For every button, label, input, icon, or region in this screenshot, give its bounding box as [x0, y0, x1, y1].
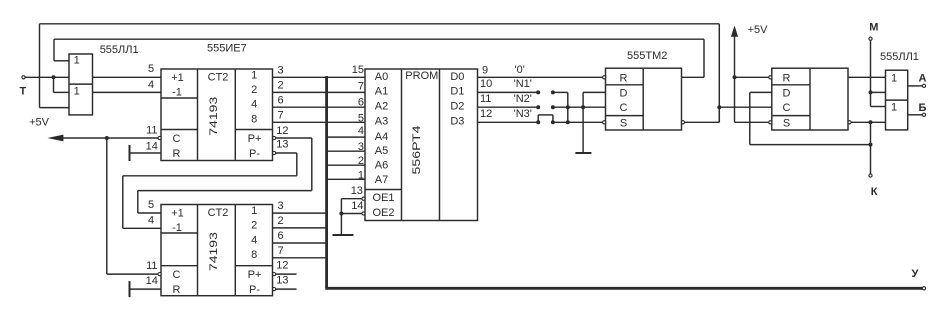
svg-text:1: 1: [891, 73, 897, 85]
power +5V feed arrow left: [47, 135, 63, 142]
node T input terminal: [22, 76, 25, 79]
svg-text:P+: P+: [248, 269, 262, 281]
svg-text:D: D: [783, 87, 791, 99]
svg-text:2: 2: [251, 84, 257, 96]
pin U5 Qbar inversion circle: [848, 121, 851, 124]
wire U4 D pin to ground: [583, 91, 605, 93]
svg-text:2: 2: [278, 215, 284, 227]
svg-text:13: 13: [276, 138, 288, 150]
wire D3 to jumper, net N3: [478, 121, 539, 123]
svg-text:7: 7: [278, 110, 284, 122]
wire U1.2 output to counter -1 pin 4: [93, 91, 162, 93]
svg-text:11: 11: [146, 260, 157, 272]
svg-text:11: 11: [146, 124, 157, 136]
wire borrow P- U2a to -1 U2b: [276, 152, 297, 154]
wire D2 to jumper, net N2: [478, 106, 539, 108]
svg-text:12: 12: [276, 125, 288, 137]
pin OE2 circle and wire: [362, 212, 365, 215]
svg-text:P-: P-: [249, 284, 260, 296]
prom U3 556RT4 box: [365, 69, 478, 221]
svg-text:A3: A3: [375, 115, 388, 127]
svg-text:A5: A5: [375, 145, 388, 157]
svg-text:C: C: [173, 269, 181, 281]
svg-text:555ИЕ7: 555ИЕ7: [207, 43, 247, 55]
svg-text:2: 2: [278, 79, 284, 91]
svg-text:15: 15: [352, 64, 364, 76]
wire M to gate U6 inputs: [870, 40, 872, 106]
wire U1.1 output to counter +1 pin 5: [93, 76, 162, 78]
svg-text:14: 14: [351, 200, 363, 212]
svg-text:A6: A6: [375, 160, 388, 172]
svg-text:CT2: CT2: [208, 207, 229, 219]
svg-text:12: 12: [480, 108, 492, 120]
svg-text:A0: A0: [375, 71, 388, 83]
svg-text:+1: +1: [171, 72, 184, 84]
wire jumper select to U4 S pin: [553, 121, 603, 123]
svg-text:2: 2: [358, 155, 364, 167]
svg-text:1: 1: [358, 169, 364, 181]
flip-flop U5 box: [772, 68, 848, 130]
ground bar below U4: [575, 152, 591, 154]
svg-text:A7: A7: [375, 174, 388, 186]
svg-text:3: 3: [278, 64, 284, 76]
svg-text:R: R: [783, 72, 791, 84]
svg-text:14: 14: [146, 275, 158, 287]
pin P- inversion circle: [273, 151, 276, 154]
junction on C wire: [105, 136, 109, 140]
pin C inversion circle: [158, 273, 161, 276]
node A output terminal: [908, 85, 923, 87]
wire P- U2b stub: [276, 288, 297, 290]
svg-text:'N2': 'N2': [514, 93, 532, 105]
wire carry P+ U2a to +1 U2b: [276, 137, 312, 139]
svg-text:9: 9: [482, 64, 488, 76]
svg-text:C: C: [173, 133, 181, 145]
counter CT2 74193 box: [161, 69, 273, 161]
junction on T wire: [52, 75, 56, 79]
svg-text:14: 14: [146, 140, 158, 152]
svg-text:R: R: [173, 284, 181, 296]
svg-text:A2: A2: [375, 101, 388, 113]
ground bar below OE: [333, 234, 354, 236]
svg-text:4: 4: [148, 215, 154, 227]
wire U4 Qbar to junction with outer feedback and U5 C: [685, 121, 720, 123]
svg-text:13: 13: [276, 275, 288, 287]
svg-text:Б: Б: [919, 102, 927, 114]
or-gate U1 box 555LL1: [69, 54, 93, 115]
svg-text:1: 1: [74, 55, 80, 67]
wire P+ U2b stub: [276, 273, 297, 275]
wire counter U2a outputs 1,2,4,8 to PROM A0-A3: [273, 76, 366, 78]
svg-text:3: 3: [278, 200, 284, 212]
wire +5V to counter C pins: [62, 137, 158, 139]
wire inner feedback from U3 Q to gate U1.1 input: [53, 39, 55, 61]
svg-text:+1: +1: [171, 208, 184, 220]
wire U5 Q output to gate U6.1 input: [848, 76, 886, 78]
svg-text:C: C: [620, 102, 628, 114]
pin OE1 circle and wire: [362, 197, 365, 200]
svg-text:А: А: [919, 72, 927, 84]
svg-text:P-: P-: [249, 148, 260, 160]
svg-text:5: 5: [148, 63, 154, 75]
svg-text:6: 6: [278, 94, 284, 106]
svg-text:1: 1: [74, 86, 80, 98]
svg-text:R: R: [620, 72, 628, 84]
ground tie bar on R pin 14: [129, 281, 131, 297]
svg-text:'N3': 'N3': [514, 108, 532, 120]
wire D1 to jumper, net N1: [478, 91, 539, 93]
svg-text:D2: D2: [450, 101, 464, 113]
svg-text:74193: 74193: [208, 232, 220, 271]
svg-text:OE1: OE1: [372, 192, 394, 204]
svg-text:555ТМ2: 555ТМ2: [627, 50, 667, 62]
wire T branch down to gate U1.2 input: [53, 77, 55, 92]
svg-text:М: М: [869, 22, 878, 34]
wire bus to PROM A4-A7: [327, 136, 365, 138]
wire Qbar net vertical to D/S net: [870, 122, 872, 144]
wire clock net to U5 C pin: [719, 106, 772, 108]
pin P- inversion circle: [273, 288, 276, 291]
svg-text:8: 8: [251, 249, 257, 261]
svg-text:12: 12: [276, 259, 288, 271]
wire OE bracket to ground: [340, 199, 342, 235]
svg-text:S: S: [783, 117, 790, 129]
svg-text:6: 6: [278, 230, 284, 242]
svg-text:D1: D1: [450, 86, 464, 98]
wire C branch down to lower counter: [106, 138, 108, 274]
jumper link N3 selected: [537, 115, 539, 122]
svg-text:1: 1: [251, 205, 257, 217]
svg-text:+5V: +5V: [748, 24, 769, 36]
svg-text:7: 7: [358, 81, 364, 93]
svg-text:P+: P+: [248, 133, 262, 145]
svg-text:CT2: CT2: [208, 71, 229, 83]
wire +5V down to U5 S pin: [735, 121, 769, 123]
svg-text:74193: 74193: [208, 97, 220, 136]
ground tie bar on R pin 14: [129, 145, 131, 161]
or-gate U6 box 555LL1 right: [886, 70, 908, 130]
svg-text:A1: A1: [375, 86, 388, 98]
wire U5 D tie to Qbar net: [750, 91, 772, 93]
wire outer feedback from U3 Qbar to gate U1.2 input: [39, 24, 41, 108]
svg-text:555ЛЛ1: 555ЛЛ1: [100, 44, 139, 56]
jumper stub N1 right: [551, 90, 555, 94]
svg-text:555ЛЛ1: 555ЛЛ1: [880, 51, 919, 63]
svg-text:+5V: +5V: [29, 116, 50, 128]
power +5V arrow up: [731, 26, 738, 37]
svg-text:-1: -1: [172, 222, 182, 234]
svg-text:C: C: [783, 102, 791, 114]
pin U4 S inversion circle: [603, 121, 606, 124]
pin U5 S inversion circle: [769, 121, 772, 124]
wire T input to gate U1.1: [25, 76, 69, 78]
svg-text:R: R: [173, 148, 181, 160]
svg-text:У: У: [912, 268, 919, 280]
svg-text:4: 4: [251, 99, 257, 111]
svg-text:2: 2: [251, 220, 257, 232]
wire output U thick line: [325, 287, 922, 290]
node B output terminal: [908, 114, 923, 116]
svg-text:OE2: OE2: [372, 207, 394, 219]
svg-text:4: 4: [358, 125, 364, 137]
svg-text:'N1': 'N1': [514, 78, 532, 90]
bus vertical trunk: [325, 76, 328, 288]
svg-text:S: S: [620, 117, 627, 129]
wire U5 Qbar to gate U6.2 input: [851, 121, 885, 123]
junction +5V to U5 R: [733, 75, 737, 79]
jumper stub N2 right to U4 C pin: [551, 105, 555, 109]
svg-text:D3: D3: [450, 115, 464, 127]
svg-text:5: 5: [358, 113, 364, 125]
svg-text:11: 11: [480, 93, 491, 105]
svg-text:-1: -1: [172, 86, 182, 98]
node K terminal: [870, 145, 872, 174]
pin C inversion circle: [158, 136, 161, 139]
svg-text:Т: Т: [20, 86, 27, 98]
svg-text:4: 4: [251, 234, 257, 246]
svg-text:10: 10: [480, 78, 492, 90]
svg-text:7: 7: [278, 245, 284, 257]
pin U5 R inversion circle: [769, 76, 772, 79]
svg-text:8: 8: [251, 114, 257, 126]
svg-text:4: 4: [148, 79, 154, 91]
svg-text:A4: A4: [375, 131, 388, 143]
svg-text:D0: D0: [450, 71, 464, 83]
svg-text:5: 5: [148, 199, 154, 211]
node U output terminal: [922, 287, 925, 290]
svg-text:3: 3: [358, 141, 364, 153]
pin P+ inversion circle: [273, 273, 276, 276]
pin P+ inversion circle: [273, 136, 276, 139]
wire counter U2b outputs 1,2,4,8 to bus: [273, 212, 327, 214]
svg-text:PROM: PROM: [405, 70, 438, 82]
svg-text:556РТ4: 556РТ4: [411, 126, 423, 175]
counter CT2 74193 box: [161, 205, 273, 296]
svg-text:1: 1: [251, 69, 257, 81]
pin U4 R inversion circle: [603, 76, 606, 79]
svg-text:D: D: [620, 87, 628, 99]
wire D0 to U4 R pin, net 0: [478, 76, 603, 78]
svg-text:'0': '0': [515, 64, 525, 76]
svg-text:13: 13: [351, 185, 363, 197]
svg-text:К: К: [871, 186, 878, 198]
flip-flop U4 555TM2 box: [606, 68, 682, 130]
node M terminal: [869, 37, 872, 40]
svg-text:6: 6: [358, 97, 364, 109]
svg-text:1: 1: [891, 102, 897, 114]
wire U4 Q output to inner feedback: [682, 76, 705, 78]
pin U4 Qbar inversion circle: [681, 121, 684, 124]
